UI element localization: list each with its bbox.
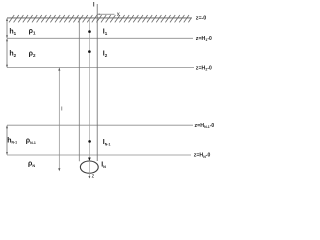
svg-text:x: x bbox=[117, 12, 120, 18]
borehole axis center line bbox=[88, 19, 90, 158]
ground surface line z=0 bbox=[7, 17, 192, 19]
svg-text:z=-0: z=-0 bbox=[196, 16, 207, 22]
svg-text:l: l bbox=[61, 106, 62, 112]
current source I2 dot bbox=[88, 50, 91, 53]
current source I(N-1) dot bbox=[88, 140, 91, 143]
arrow into bottom electrode bbox=[88, 158, 91, 161]
surface hatching bbox=[9, 15, 192, 22]
layer boundary z=H1 bbox=[7, 37, 193, 39]
h1 thickness arrow bbox=[6, 19, 8, 38]
bottom spherical electrode bbox=[80, 161, 98, 173]
svg-text:z: z bbox=[92, 173, 95, 179]
layer boundary z=H(N-1) bbox=[7, 124, 193, 126]
svg-text:z=H1-0: z=H1-0 bbox=[196, 36, 212, 42]
svg-text:z=HN-0: z=HN-0 bbox=[194, 153, 211, 159]
current source I1 dot bbox=[88, 30, 91, 33]
h2 thickness arrow bbox=[6, 39, 8, 67]
layer boundary z=HN bbox=[7, 154, 191, 156]
x axis arrow bbox=[97, 13, 114, 15]
borehole left wall bbox=[78, 18, 80, 161]
z axis through electrode bbox=[88, 161, 90, 177]
h(N-1) thickness arrow bbox=[6, 126, 8, 155]
depth dimension line l bbox=[58, 68, 60, 171]
layer boundary z=H2 bbox=[7, 67, 194, 69]
borehole right wall and feed wire bbox=[96, 4, 98, 161]
svg-text:z=H2-0: z=H2-0 bbox=[196, 65, 212, 71]
